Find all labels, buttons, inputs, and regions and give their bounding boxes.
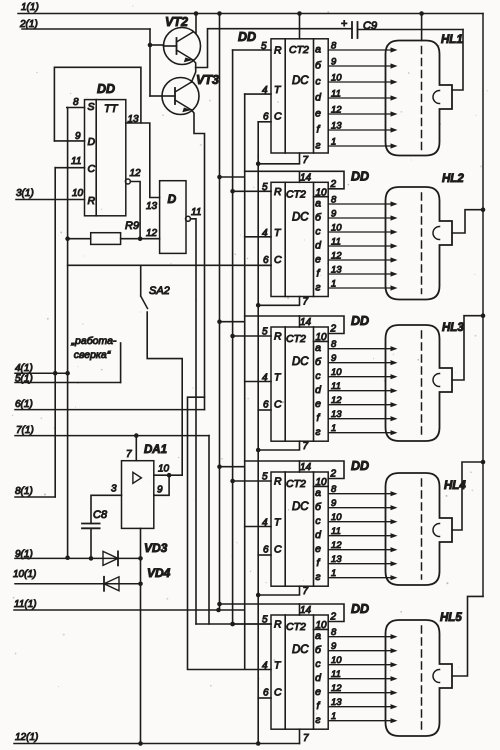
svg-text:S: S <box>88 101 95 113</box>
svg-text:6(1): 6(1) <box>15 399 33 410</box>
svg-text:13: 13 <box>331 554 342 565</box>
svg-text:1(1): 1(1) <box>21 2 39 13</box>
svg-text:12: 12 <box>331 395 342 406</box>
svg-text:T: T <box>274 227 282 239</box>
svg-text:DD: DD <box>238 30 256 44</box>
svg-text:C: C <box>88 163 96 175</box>
svg-text:14: 14 <box>300 317 312 328</box>
svg-text:HL5: HL5 <box>440 612 462 624</box>
svg-text:e: e <box>315 398 321 410</box>
svg-text:11: 11 <box>331 381 341 392</box>
svg-text:11: 11 <box>191 207 201 218</box>
svg-text:3(1): 3(1) <box>16 188 34 199</box>
svg-text:б: б <box>315 212 322 224</box>
svg-text:7: 7 <box>126 449 132 460</box>
svg-text:13: 13 <box>331 121 342 132</box>
svg-text:8: 8 <box>331 195 337 206</box>
svg-text:11(1): 11(1) <box>14 599 37 610</box>
svg-text:CT2: CT2 <box>286 333 306 345</box>
svg-text:б: б <box>315 60 322 72</box>
svg-text:CT2: CT2 <box>286 188 306 200</box>
svg-text:e: e <box>315 686 321 698</box>
svg-text:e: e <box>315 254 321 266</box>
svg-text:12: 12 <box>331 683 342 694</box>
svg-text:1: 1 <box>331 279 336 290</box>
svg-text:11: 11 <box>331 89 341 100</box>
svg-text:VT2: VT2 <box>165 15 188 29</box>
svg-text:D: D <box>88 136 96 148</box>
svg-text:a: a <box>315 630 321 642</box>
svg-text:12: 12 <box>130 168 142 179</box>
svg-text:12: 12 <box>331 105 342 116</box>
svg-text:13: 13 <box>331 697 342 708</box>
svg-text:4(1): 4(1) <box>15 363 33 374</box>
svg-text:HL2: HL2 <box>442 173 464 185</box>
svg-text:a: a <box>315 44 321 56</box>
svg-text:CT2: CT2 <box>289 44 309 56</box>
svg-text:12: 12 <box>331 540 342 551</box>
svg-text:a: a <box>315 342 321 354</box>
svg-text:8: 8 <box>331 339 337 350</box>
svg-text:г: г <box>315 571 320 583</box>
svg-text:C: C <box>274 544 282 556</box>
svg-text:DC: DC <box>292 644 309 656</box>
svg-text:DD: DD <box>351 459 369 473</box>
svg-text:13: 13 <box>331 265 342 276</box>
svg-text:R9: R9 <box>125 220 139 232</box>
svg-text:d: d <box>315 92 322 104</box>
svg-text:14: 14 <box>300 605 312 616</box>
svg-text:f: f <box>317 124 321 136</box>
svg-text:6: 6 <box>263 400 269 411</box>
svg-text:1: 1 <box>331 423 336 434</box>
svg-text:SA2: SA2 <box>149 285 170 297</box>
svg-text:13: 13 <box>146 201 158 212</box>
svg-text:8: 8 <box>73 97 79 108</box>
svg-text:11: 11 <box>331 669 341 680</box>
svg-text:T: T <box>274 660 282 672</box>
svg-text:C: C <box>274 687 282 699</box>
svg-text:10: 10 <box>331 655 342 666</box>
svg-text:10: 10 <box>72 188 84 199</box>
svg-text:R: R <box>274 186 282 198</box>
svg-text:VD4: VD4 <box>147 566 171 580</box>
svg-text:c: c <box>315 226 321 238</box>
svg-text:7: 7 <box>303 155 309 166</box>
svg-text:D: D <box>168 192 177 206</box>
svg-text:12: 12 <box>331 251 342 262</box>
svg-text:CT2: CT2 <box>286 621 306 633</box>
svg-text:f: f <box>317 268 321 280</box>
svg-text:7: 7 <box>303 733 309 744</box>
svg-text:TT: TT <box>104 103 119 115</box>
svg-text:9: 9 <box>157 485 163 496</box>
svg-text:б: б <box>315 644 322 656</box>
svg-text:T: T <box>274 372 282 384</box>
svg-text:HL1: HL1 <box>441 34 463 46</box>
svg-text:T: T <box>274 84 282 96</box>
svg-text:f: f <box>317 557 321 569</box>
svg-text:d: d <box>315 672 322 684</box>
svg-text:7(1): 7(1) <box>16 425 34 436</box>
svg-text:VD3: VD3 <box>144 541 168 555</box>
svg-text:f: f <box>317 700 321 712</box>
svg-text:DC: DC <box>292 356 309 368</box>
svg-text:1: 1 <box>331 711 336 722</box>
svg-text:9: 9 <box>331 209 337 220</box>
svg-text:4: 4 <box>262 661 268 672</box>
svg-text:DA1: DA1 <box>144 444 167 456</box>
svg-text:T: T <box>274 517 282 529</box>
svg-text:9: 9 <box>331 57 337 68</box>
svg-text:14: 14 <box>300 462 312 473</box>
svg-text:d: d <box>315 240 322 252</box>
svg-text:d: d <box>315 529 322 541</box>
svg-text:C: C <box>274 110 282 122</box>
svg-text:14: 14 <box>300 172 312 183</box>
svg-text:7: 7 <box>303 586 309 597</box>
svg-text:a: a <box>315 198 321 210</box>
svg-text:10: 10 <box>331 367 342 378</box>
svg-text:6: 6 <box>263 688 269 699</box>
svg-text:7: 7 <box>303 441 309 452</box>
svg-text:8(1): 8(1) <box>15 486 33 497</box>
svg-text:9: 9 <box>331 353 337 364</box>
svg-text:„работа-: „работа- <box>71 335 117 347</box>
svg-text:2: 2 <box>330 612 337 623</box>
svg-text:г: г <box>315 714 320 726</box>
svg-text:C: C <box>274 254 282 266</box>
svg-text:DC: DC <box>292 75 309 87</box>
svg-text:a: a <box>315 487 321 499</box>
svg-text:R: R <box>88 195 96 207</box>
svg-text:10(1): 10(1) <box>13 569 36 580</box>
svg-text:R: R <box>274 476 282 488</box>
svg-text:г: г <box>315 282 320 294</box>
svg-text:11: 11 <box>331 526 341 537</box>
svg-text:13: 13 <box>331 409 342 420</box>
svg-text:8: 8 <box>331 627 337 638</box>
svg-text:DD: DD <box>97 82 115 96</box>
svg-text:9: 9 <box>331 498 337 509</box>
svg-text:б: б <box>315 356 322 368</box>
svg-text:DD: DD <box>351 602 369 616</box>
svg-text:1: 1 <box>331 568 336 579</box>
svg-text:2: 2 <box>330 469 337 480</box>
svg-text:сверка“: сверка“ <box>74 349 111 361</box>
svg-text:c: c <box>315 370 321 382</box>
svg-text:г: г <box>315 140 320 152</box>
svg-text:R: R <box>274 331 282 343</box>
svg-text:12: 12 <box>146 228 158 239</box>
svg-text:C: C <box>274 399 282 411</box>
svg-text:e: e <box>315 108 321 120</box>
svg-text:R: R <box>274 45 282 57</box>
svg-text:8: 8 <box>331 484 337 495</box>
svg-text:3: 3 <box>111 484 117 495</box>
svg-text:f: f <box>317 412 321 424</box>
svg-text:6: 6 <box>263 545 269 556</box>
svg-text:11: 11 <box>331 237 341 248</box>
svg-text:11: 11 <box>71 156 81 167</box>
svg-text:C8: C8 <box>93 509 108 521</box>
svg-text:R: R <box>274 619 282 631</box>
svg-text:10: 10 <box>331 223 342 234</box>
svg-text:DD: DD <box>351 314 369 328</box>
svg-text:9: 9 <box>331 641 337 652</box>
svg-text:HL3: HL3 <box>442 322 464 334</box>
svg-text:10: 10 <box>331 512 342 523</box>
svg-text:DD: DD <box>351 169 369 183</box>
svg-text:c: c <box>315 76 321 88</box>
svg-text:c: c <box>315 658 321 670</box>
svg-text:6: 6 <box>263 255 269 266</box>
svg-text:12(1): 12(1) <box>15 732 38 743</box>
svg-text:c: c <box>315 515 321 527</box>
svg-text:e: e <box>315 543 321 555</box>
svg-text:10: 10 <box>158 464 170 475</box>
svg-text:DC: DC <box>292 211 309 223</box>
svg-text:г: г <box>315 426 320 438</box>
svg-text:2: 2 <box>330 324 337 335</box>
svg-text:7: 7 <box>303 296 309 307</box>
svg-text:CT2: CT2 <box>286 478 306 490</box>
svg-text:1: 1 <box>331 137 336 148</box>
svg-text:2: 2 <box>330 179 337 190</box>
svg-text:б: б <box>315 501 322 513</box>
svg-text:VT3: VT3 <box>196 73 219 87</box>
svg-text:d: d <box>315 384 322 396</box>
svg-text:10: 10 <box>331 73 342 84</box>
svg-text:6: 6 <box>263 111 269 122</box>
svg-text:HL4: HL4 <box>444 480 466 492</box>
svg-text:8: 8 <box>331 41 337 52</box>
svg-text:DC: DC <box>292 501 309 513</box>
